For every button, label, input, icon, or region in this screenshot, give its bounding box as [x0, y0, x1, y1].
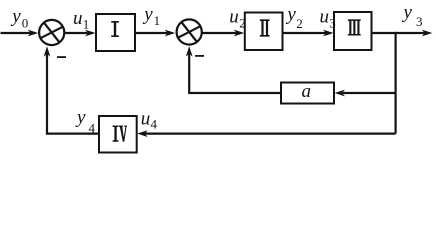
wire S2 to block II [203, 32, 238, 34]
arrowhead into block III [323, 30, 334, 37]
svg-text:1: 1 [83, 16, 90, 31]
svg-text:y: y [285, 4, 296, 25]
svg-text:0: 0 [22, 16, 29, 31]
arrowhead into S1 from below [44, 46, 51, 57]
label y1 [142, 4, 160, 28]
wire block a to S2 bottom [189, 53, 281, 93]
label y4 [75, 107, 96, 135]
arrowhead into S1 [28, 30, 39, 37]
wire bottom row: node to block IV [145, 133, 396, 135]
wire input [1, 32, 31, 34]
minus sign at S2 [195, 55, 204, 57]
minus sign at S1 [57, 56, 66, 58]
wire block I to S2 [135, 32, 168, 34]
label u4 [141, 108, 158, 131]
numeral I in block I [111, 21, 119, 37]
wire a-row right: node to block a [343, 92, 396, 94]
svg-text:y: y [75, 107, 86, 128]
svg-text:a: a [302, 81, 312, 102]
block a box [281, 83, 334, 104]
summing junction S2 [177, 19, 202, 44]
svg-text:4: 4 [89, 121, 96, 136]
svg-text:u: u [320, 7, 330, 28]
label y0 [10, 6, 28, 31]
svg-text:1: 1 [154, 13, 161, 28]
label u3 [320, 7, 336, 31]
svg-text:3: 3 [416, 14, 423, 29]
arrowhead into block a [335, 90, 346, 97]
svg-text:2: 2 [296, 16, 303, 31]
svg-text:y: y [402, 2, 413, 23]
svg-text:u: u [141, 108, 151, 129]
block IV box [99, 116, 137, 153]
wire feedback vertical from node y3 [395, 32, 397, 134]
wire S1 to block I [65, 32, 88, 34]
arrowhead into S2 [165, 30, 176, 37]
svg-text:u: u [73, 8, 83, 29]
label y2 [285, 4, 302, 31]
wire block IV to S1 bottom [47, 53, 99, 134]
svg-text:u: u [229, 7, 239, 28]
wire block II to block III [283, 32, 327, 34]
arrowhead output y3 [422, 30, 433, 37]
block III box [334, 12, 372, 50]
svg-text:3: 3 [329, 16, 336, 31]
arrowhead into block IV [137, 130, 148, 137]
label y3 [402, 2, 423, 29]
numeral II in block II [260, 19, 270, 36]
numeral III in block III [348, 19, 361, 35]
svg-text:y: y [10, 6, 21, 27]
block I box [96, 14, 135, 51]
svg-text:y: y [142, 4, 153, 25]
svg-text:2: 2 [239, 16, 246, 31]
wire output y3 [372, 32, 425, 34]
svg-text:4: 4 [151, 116, 158, 131]
arrowhead into block II [234, 30, 245, 37]
arrowhead into S2 from below [186, 46, 193, 57]
summing junction S1 [39, 20, 64, 45]
label u1 [73, 8, 89, 32]
label u2 [229, 7, 245, 31]
numeral IV in block IV [113, 126, 127, 142]
block II box [245, 13, 283, 51]
arrowhead into block I [85, 30, 96, 37]
